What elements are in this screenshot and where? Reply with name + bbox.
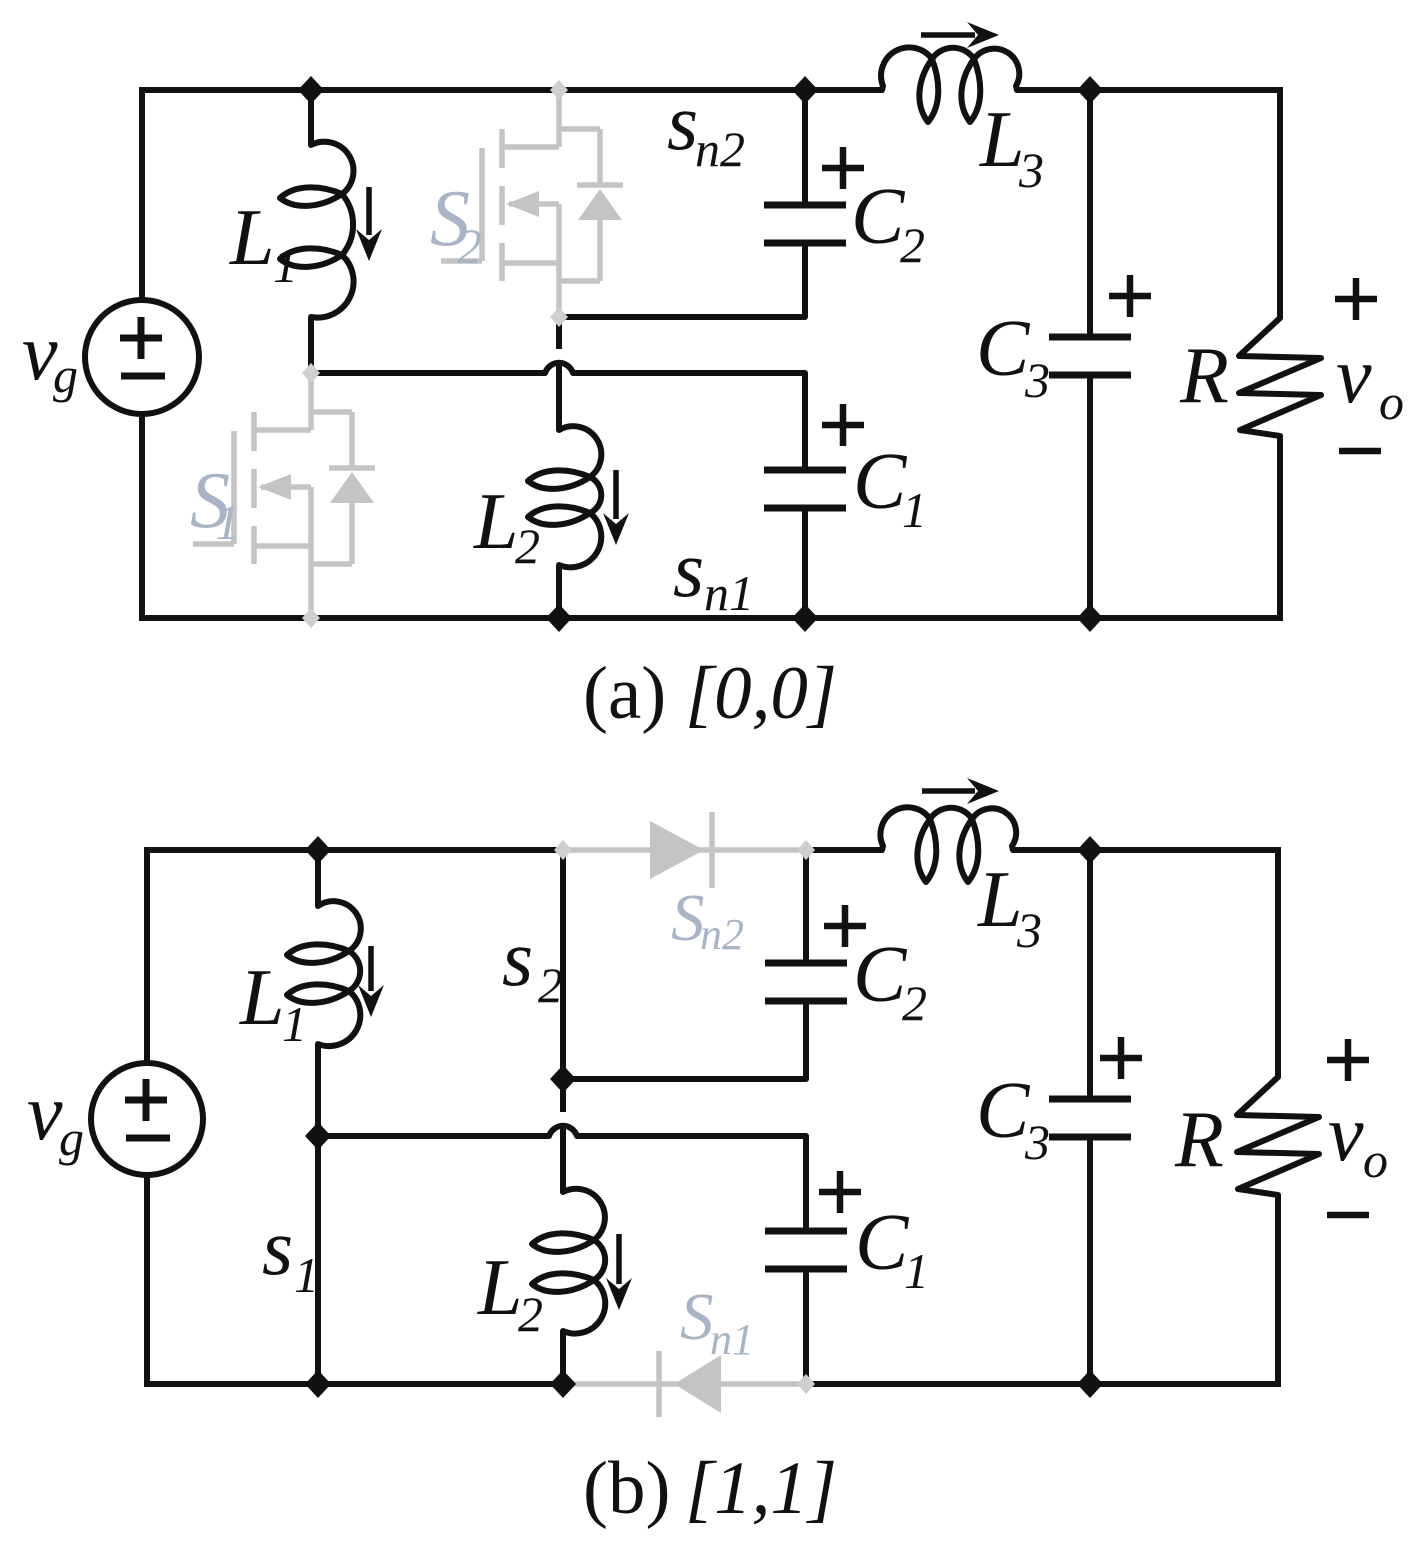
- label R (b): [1174, 1096, 1224, 1184]
- svg-text:n1: n1: [704, 565, 754, 621]
- voltage source vg (a): [85, 300, 199, 414]
- svg-text:s: s: [262, 1204, 293, 1292]
- label R (a): [1179, 332, 1229, 420]
- node C3 bottom (b): [1077, 1370, 1103, 1398]
- node L1 top (b): [305, 836, 331, 864]
- inductor L1 (a): [280, 90, 354, 373]
- current arrow iL3 (b): [922, 778, 999, 804]
- polarity plus C2 (b): [824, 905, 866, 947]
- label L1 (a): [229, 194, 298, 293]
- wire: right rail (a): [1277, 87, 1283, 621]
- node L1 top (a): [298, 76, 324, 104]
- node S2 source (a): [550, 307, 568, 327]
- svg-text:R: R: [1174, 1096, 1224, 1184]
- svg-text:s: s: [667, 79, 698, 167]
- svg-text:1: 1: [282, 996, 307, 1052]
- label sn1 (a): [673, 526, 754, 621]
- polarity plus C3 (a): [1109, 275, 1151, 317]
- label S2 (a): [430, 175, 482, 274]
- label C1 (a): [853, 438, 927, 538]
- node s2 top (b): [554, 840, 572, 860]
- inductor L1 (b): [287, 850, 361, 1136]
- label C3 (b): [976, 1067, 1050, 1170]
- label vo (b): [1328, 1090, 1388, 1188]
- label s1 (b): [262, 1204, 319, 1303]
- wire: mid upper (a): [559, 243, 805, 317]
- current arrow iL3 (a): [921, 22, 999, 48]
- label L2 (a): [473, 478, 540, 574]
- svg-text:s: s: [673, 526, 704, 614]
- label L3 (b): [977, 856, 1042, 958]
- svg-text:C: C: [853, 438, 908, 526]
- wire: mid upper (b): [563, 1001, 806, 1079]
- polarity plus C3 (b): [1100, 1037, 1142, 1079]
- label C2 (a): [851, 173, 925, 273]
- caption (b): [583, 1447, 837, 1530]
- wire: mid lower with hop (b): [318, 1126, 806, 1231]
- node C3 bottom (a): [1077, 604, 1103, 632]
- diode Sn2 (b): [563, 812, 806, 888]
- capacitor C3 (b): [1049, 850, 1131, 1384]
- label Sn1 (b): [680, 1280, 754, 1364]
- svg-text:3: 3: [1018, 142, 1044, 198]
- node C3 top (b): [1077, 836, 1103, 864]
- label vo (a): [1336, 332, 1404, 430]
- polarity minus vo (a): [1339, 448, 1381, 455]
- label vg (a): [22, 309, 78, 403]
- polarity minus vo (b): [1327, 1212, 1369, 1219]
- node L2 bottom (a): [546, 604, 572, 632]
- svg-text:C: C: [976, 1067, 1031, 1155]
- resistor R (b): [1237, 1077, 1319, 1384]
- voltage source vg (b): [91, 1063, 203, 1175]
- wire: top rail (b): [147, 847, 1278, 853]
- polarity plus C1 (b): [819, 1171, 861, 1213]
- label sn2 (a): [667, 79, 745, 177]
- node C3 top (a): [1077, 76, 1103, 104]
- node C2 top (a): [792, 76, 818, 104]
- current arrow iL1 (a): [356, 187, 382, 261]
- node s1 bottom (b): [305, 1370, 331, 1398]
- svg-text:3: 3: [1024, 352, 1050, 408]
- svg-text:C: C: [853, 931, 908, 1019]
- svg-text:v: v: [1336, 332, 1372, 420]
- svg-text:1: 1: [294, 1247, 319, 1303]
- polarity plus C2 (a): [822, 147, 864, 189]
- current arrow iL2 (b): [606, 1234, 632, 1310]
- current arrow iL1 (b): [358, 946, 384, 1017]
- wire: left rail (b): [144, 847, 150, 1387]
- svg-text:2: 2: [900, 217, 925, 273]
- polarity plus vo (b): [1327, 1039, 1369, 1081]
- svg-text:C: C: [851, 173, 906, 261]
- polarity plus vo (a): [1335, 278, 1377, 320]
- svg-text:3: 3: [1024, 1114, 1050, 1170]
- switch s1 wire (b): [315, 1136, 321, 1384]
- wire: mid lower with hop (a): [311, 363, 805, 470]
- svg-text:n2: n2: [695, 121, 745, 177]
- label L2 (b): [477, 1244, 543, 1342]
- svg-text:[1,1]: [1,1]: [685, 1447, 837, 1530]
- svg-text:L: L: [979, 96, 1025, 184]
- svg-text:1: 1: [904, 1243, 929, 1299]
- svg-text:1: 1: [273, 237, 298, 293]
- wire: bottom rail (b): [147, 1381, 1278, 1387]
- wire: bottom rail (a): [142, 615, 1280, 621]
- inductor L2 (a): [528, 317, 601, 618]
- svg-text:v: v: [1328, 1090, 1364, 1178]
- svg-text:L: L: [239, 954, 285, 1042]
- transistor S1 (a): [193, 373, 375, 618]
- capacitor C2 (a): [764, 90, 846, 243]
- label L1 (b): [239, 954, 307, 1052]
- current arrow iL2 (a): [603, 470, 629, 545]
- svg-text:o: o: [1379, 374, 1404, 430]
- svg-text:n2: n2: [700, 910, 744, 959]
- svg-text:(b): (b): [583, 1447, 670, 1530]
- svg-text:[0,0]: [0,0]: [685, 652, 837, 735]
- node S1 drain (a): [302, 363, 320, 383]
- svg-text:C: C: [976, 305, 1031, 393]
- svg-text:L: L: [477, 1244, 523, 1332]
- label s2 (b): [502, 915, 563, 1013]
- svg-text:1: 1: [902, 482, 927, 538]
- svg-text:g: g: [53, 347, 78, 403]
- node C1 bottom (a): [792, 604, 818, 632]
- svg-text:v: v: [27, 1069, 63, 1157]
- resistor R (a): [1239, 318, 1321, 618]
- node L2 bottom (b): [550, 1370, 576, 1398]
- svg-text:S: S: [680, 1280, 714, 1354]
- inductor L3 (a): [881, 47, 1019, 122]
- label C1 (b): [855, 1199, 929, 1299]
- svg-text:L: L: [473, 478, 519, 566]
- svg-text:o: o: [1363, 1132, 1388, 1188]
- node S1 source (a): [302, 608, 320, 628]
- polarity plus C1 (a): [822, 404, 864, 446]
- label C3 (a): [976, 305, 1050, 408]
- svg-text:2: 2: [902, 975, 927, 1031]
- capacitor C1 (a): [764, 470, 846, 618]
- svg-text:2: 2: [538, 957, 563, 1013]
- svg-text:R: R: [1179, 332, 1229, 420]
- svg-text:L: L: [229, 194, 275, 282]
- node Sn2 cathode end (b): [797, 840, 815, 860]
- svg-text:1: 1: [215, 494, 240, 550]
- switch s2 wire (b): [560, 850, 566, 1079]
- diode Sn1 (b): [563, 1351, 806, 1417]
- label S1 (a): [190, 457, 240, 550]
- capacitor C2 (b): [765, 850, 847, 1001]
- node L1 bottom (b): [305, 1122, 331, 1150]
- svg-text:2: 2: [515, 518, 540, 574]
- caption (a): [583, 652, 837, 735]
- svg-text:n1: n1: [710, 1315, 754, 1364]
- capacitor C1 (b): [765, 1231, 847, 1384]
- transistor S2 (a): [441, 90, 623, 317]
- wire: right rail (b): [1275, 847, 1281, 1387]
- svg-text:g: g: [59, 1110, 84, 1166]
- wire: left rail (a): [139, 87, 145, 621]
- wire: top rail (a): [142, 87, 1280, 93]
- svg-text:s: s: [502, 915, 533, 1003]
- inductor L3 (b): [880, 807, 1016, 882]
- capacitor C3 (a): [1049, 90, 1131, 618]
- node Sn1 anode end (b): [797, 1374, 815, 1394]
- svg-text:3: 3: [1016, 902, 1042, 958]
- svg-text:2: 2: [518, 1286, 543, 1342]
- label Sn2 (b): [671, 881, 744, 959]
- label C2 (b): [853, 931, 927, 1031]
- inductor L2 (b): [532, 1079, 605, 1384]
- label vg (b): [27, 1069, 84, 1166]
- svg-text:2: 2: [457, 218, 482, 274]
- svg-text:C: C: [855, 1199, 910, 1287]
- svg-text:L: L: [977, 856, 1023, 944]
- label L3 (a): [979, 96, 1044, 198]
- svg-text:(a): (a): [583, 652, 666, 735]
- node s2 bottom (b): [550, 1065, 576, 1093]
- node S2 drain (a): [550, 80, 568, 100]
